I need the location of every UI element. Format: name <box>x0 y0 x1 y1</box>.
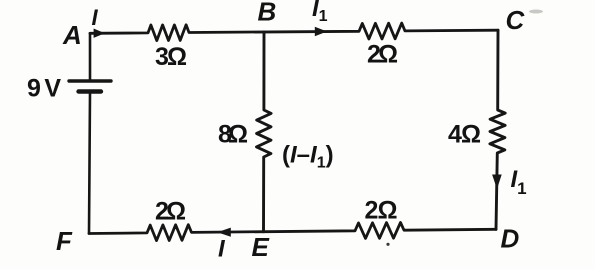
svg-text:2Ω: 2Ω <box>367 41 398 69</box>
battery 9V negative plate <box>79 89 102 93</box>
wire C down through 4-ohm to D <box>490 30 505 229</box>
svg-text:F: F <box>56 226 73 256</box>
current I1 arrowhead on top wire after B <box>315 27 327 36</box>
wire F to E to D (bottom) with resistors <box>89 223 496 241</box>
svg-text:8Ω: 8Ω <box>218 121 248 149</box>
wire A down to battery <box>89 33 92 79</box>
current I arrowhead on top wire after A <box>94 29 105 38</box>
svg-text:(I–I1): (I–I1) <box>282 142 334 172</box>
svg-text:I1: I1 <box>511 166 527 198</box>
svg-text:3Ω: 3Ω <box>155 43 187 71</box>
svg-text:9 V: 9 V <box>27 75 61 103</box>
battery 9V positive plate <box>69 79 111 82</box>
svg-text:I1: I1 <box>312 0 328 25</box>
stray scan dot below bottom-right resistor <box>386 243 389 246</box>
svg-text:D: D <box>501 224 520 254</box>
wire battery down to F <box>89 94 90 234</box>
svg-text:B: B <box>258 0 277 27</box>
svg-text:4Ω: 4Ω <box>448 121 481 149</box>
svg-text:I: I <box>92 5 99 30</box>
svg-text:2Ω: 2Ω <box>365 197 398 225</box>
svg-text:2Ω: 2Ω <box>155 197 186 225</box>
faint scan smudge right of C <box>529 10 543 14</box>
svg-text:I: I <box>218 235 226 262</box>
svg-text:E: E <box>252 232 270 262</box>
wire B down through 8-ohm to E <box>257 32 272 232</box>
current I arrowhead on bottom wire left of E <box>217 228 231 237</box>
current I1 arrowhead on right wire above D <box>492 175 502 190</box>
wire A to B to C (top) with resistors <box>90 23 498 40</box>
svg-text:C: C <box>506 5 526 35</box>
svg-text:A: A <box>62 20 82 50</box>
